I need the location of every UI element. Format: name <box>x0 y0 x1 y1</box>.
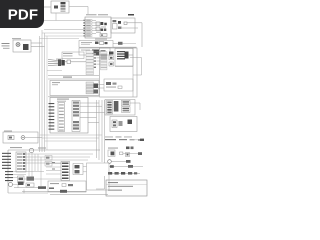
bottom long wire <box>22 189 87 193</box>
cable W2 ferrule <box>58 60 65 67</box>
sensor module A1 outline <box>13 40 31 52</box>
A7 components <box>112 120 123 128</box>
wires U1 internal rows <box>92 20 96 33</box>
U4 left pin stubs <box>49 103 55 130</box>
power section outline <box>48 181 86 192</box>
resistor R4 <box>101 50 106 53</box>
bottom section enclosure <box>87 163 110 190</box>
signal row B box <box>79 48 110 55</box>
U4 inner register column <box>58 103 65 132</box>
IC U1 outline <box>85 17 111 38</box>
wire A2 out lower <box>122 27 138 29</box>
main terminal board outline <box>8 150 100 193</box>
relay bank K4 pins <box>5 171 13 181</box>
wire into title block <box>96 176 105 189</box>
wire right rail upper <box>141 23 143 47</box>
wire A8 out <box>25 137 42 139</box>
transistor Q2 <box>104 23 107 26</box>
U1 left pin row labels <box>86 19 93 37</box>
terminal X10 body <box>16 152 26 172</box>
wire U5 out <box>130 103 140 110</box>
opto coupler U6 <box>108 150 115 157</box>
wire row A out <box>113 42 136 45</box>
wire K1 to U1 <box>69 7 88 15</box>
title block row 3 <box>108 190 122 191</box>
power section parts <box>49 184 73 189</box>
sensor module A1 label <box>12 38 21 39</box>
meter M1 <box>29 148 33 152</box>
power section label <box>50 183 59 184</box>
vertical drop wires <box>29 153 41 186</box>
resistor R3 <box>95 42 99 45</box>
lamp symbol H1 <box>16 43 20 47</box>
U4 right port column <box>72 101 80 132</box>
diode D3 <box>105 42 108 44</box>
note label N1 <box>128 14 134 16</box>
value label under U1 <box>95 27 107 40</box>
wire junction K1 drop <box>55 13 57 21</box>
U5 right bank lower <box>122 107 131 113</box>
terminal X10 pin labels <box>2 153 11 169</box>
capacitor C4 <box>100 42 104 45</box>
connector X7 column <box>101 52 108 70</box>
resistor R1 <box>100 34 107 37</box>
relay K1 enclosure <box>51 1 69 13</box>
wire right rail mid <box>115 66 133 68</box>
resistor R2 <box>118 27 122 29</box>
buzzer B1 <box>108 160 112 164</box>
connector X5 fan housing <box>115 49 133 67</box>
transformer T1 <box>60 190 67 193</box>
IO module A5 outline <box>50 81 99 96</box>
wire bus feeders to U1 <box>40 33 86 39</box>
terminal strip row <box>108 172 137 175</box>
bus band label <box>63 76 72 77</box>
capacitor C1 <box>96 22 100 26</box>
U5 left bank <box>107 101 113 115</box>
wire to fuse <box>14 187 38 189</box>
wire B1 to R5 <box>111 161 126 163</box>
A5 driver IC U3 <box>94 84 99 94</box>
input module A8 outline <box>3 132 38 143</box>
bottom rail wire <box>50 193 108 195</box>
module A2 outline <box>111 18 135 33</box>
capacitor C6 <box>126 153 130 157</box>
PDF badge <box>0 0 44 28</box>
page background <box>0 0 149 198</box>
cable W1 bundle ferrule <box>125 52 129 59</box>
text row under A7 <box>105 137 143 141</box>
capacitor C5 <box>120 152 123 155</box>
bus band upper border <box>48 75 99 77</box>
wire right rail lower <box>130 58 142 76</box>
connector X11 column <box>61 162 70 181</box>
diode pair D5 <box>126 147 134 150</box>
A7 crystal Y1 <box>128 120 133 125</box>
row B label <box>81 49 90 52</box>
connector X1 pin stack <box>61 2 66 12</box>
title block row 1 <box>108 182 118 183</box>
cable fan label <box>56 59 63 60</box>
IC U2 <box>92 50 99 54</box>
terminal board label <box>10 147 22 148</box>
A8 switch S1 <box>8 136 14 140</box>
transistor Q1 <box>101 22 104 25</box>
wire badge to U1 row1 <box>44 20 85 22</box>
wires terminal rows right <box>25 154 93 163</box>
resistor R7 <box>96 52 99 56</box>
driver U7 <box>73 164 83 175</box>
wire bus to bottom row3 <box>45 140 97 142</box>
central vertical bus <box>97 100 105 163</box>
capacitor C2 <box>96 27 100 31</box>
fuse F1 <box>38 186 46 189</box>
wire bus to bottom row2 <box>42 137 99 139</box>
junction block outline <box>62 52 84 59</box>
A6 card parts <box>106 82 122 89</box>
junction block label <box>63 53 73 56</box>
connector X6 pin pads <box>94 51 96 68</box>
inline filter FL1 <box>67 60 71 64</box>
module A6 inner wall <box>132 48 134 97</box>
signal row A box <box>79 41 113 48</box>
module A6 inner card <box>104 79 133 91</box>
wire badge to U1 row4 <box>44 29 85 31</box>
push button S2 <box>9 183 13 187</box>
title block row 2 <box>108 186 133 187</box>
connector X6 column rows <box>86 51 94 75</box>
diode D2 <box>104 29 107 32</box>
input module A8 label <box>4 131 12 132</box>
wire row y173 <box>109 173 140 175</box>
wire row y166 <box>109 166 128 168</box>
wire to relay K8 <box>133 139 144 141</box>
A5 connector rows <box>86 82 94 94</box>
wire U6 out <box>123 152 142 155</box>
row A label <box>81 42 92 45</box>
title block frame <box>106 180 147 196</box>
resistor R6 <box>128 165 143 168</box>
wires U7 out <box>83 167 87 172</box>
cable W2 conductors fan <box>48 60 58 66</box>
memory block U5 outline <box>105 100 135 116</box>
relay coil K1 <box>54 6 58 9</box>
interface module A7 outline <box>110 117 137 132</box>
A8 lamp H2 <box>21 136 25 140</box>
wire rows bottom-left <box>13 172 63 189</box>
wire A1 out upper <box>31 42 42 44</box>
diode D1 <box>101 29 104 32</box>
label right of M1 <box>38 148 46 149</box>
CPU block U4 outline <box>50 98 88 134</box>
U1 pin numbers <box>83 20 85 37</box>
wire A1 out lower <box>31 46 45 48</box>
relay K7 <box>18 182 34 188</box>
U4 header label <box>57 99 69 102</box>
module A6 outer enclosure <box>100 48 138 97</box>
A5 label <box>52 82 60 85</box>
wires A5 out <box>98 85 104 89</box>
diode D4 <box>110 165 114 168</box>
svg-text:PDF: PDF <box>8 6 39 23</box>
wire A2 out upper <box>127 22 142 24</box>
U5 right bank upper <box>122 100 131 106</box>
cable fan left of X11 <box>46 162 61 174</box>
relay K3 <box>23 44 29 50</box>
U5 middle bank <box>114 101 119 112</box>
net label above U1 <box>86 14 108 15</box>
wire X5 out <box>129 54 134 56</box>
bottom border of upper section <box>48 96 99 98</box>
title block divider <box>106 183 147 185</box>
comparator rows label <box>108 148 118 149</box>
resistor R5 <box>126 160 131 163</box>
wire badge to K1 <box>44 6 51 8</box>
relay K5 body <box>18 176 25 183</box>
wires X6 to right <box>96 52 100 64</box>
contactor K6 <box>27 177 35 181</box>
terminal labels left of A1 <box>2 43 10 49</box>
transistor Q3 <box>118 21 121 24</box>
wires U4 to right bus <box>80 103 105 123</box>
wire W2 to connector column <box>47 62 86 71</box>
cable W1 conductors <box>117 51 125 59</box>
terminal cells TB2 <box>45 156 52 167</box>
wire bus to bottom row1 <box>40 134 103 136</box>
capacitor C3 <box>124 22 127 25</box>
A6 mid components <box>109 52 114 67</box>
left vertical bus wires <box>40 30 48 152</box>
wire top border of module A3 <box>113 46 137 48</box>
bus band lower border <box>48 78 99 80</box>
relay K2 <box>113 20 118 29</box>
